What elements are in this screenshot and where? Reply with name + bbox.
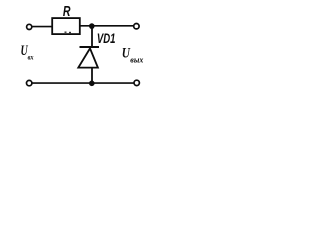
svg-text:R: R	[63, 4, 71, 20]
svg-text:вых: вых	[130, 55, 144, 65]
svg-text:VD1: VD1	[97, 31, 116, 47]
svg-text:вх: вх	[28, 53, 34, 62]
